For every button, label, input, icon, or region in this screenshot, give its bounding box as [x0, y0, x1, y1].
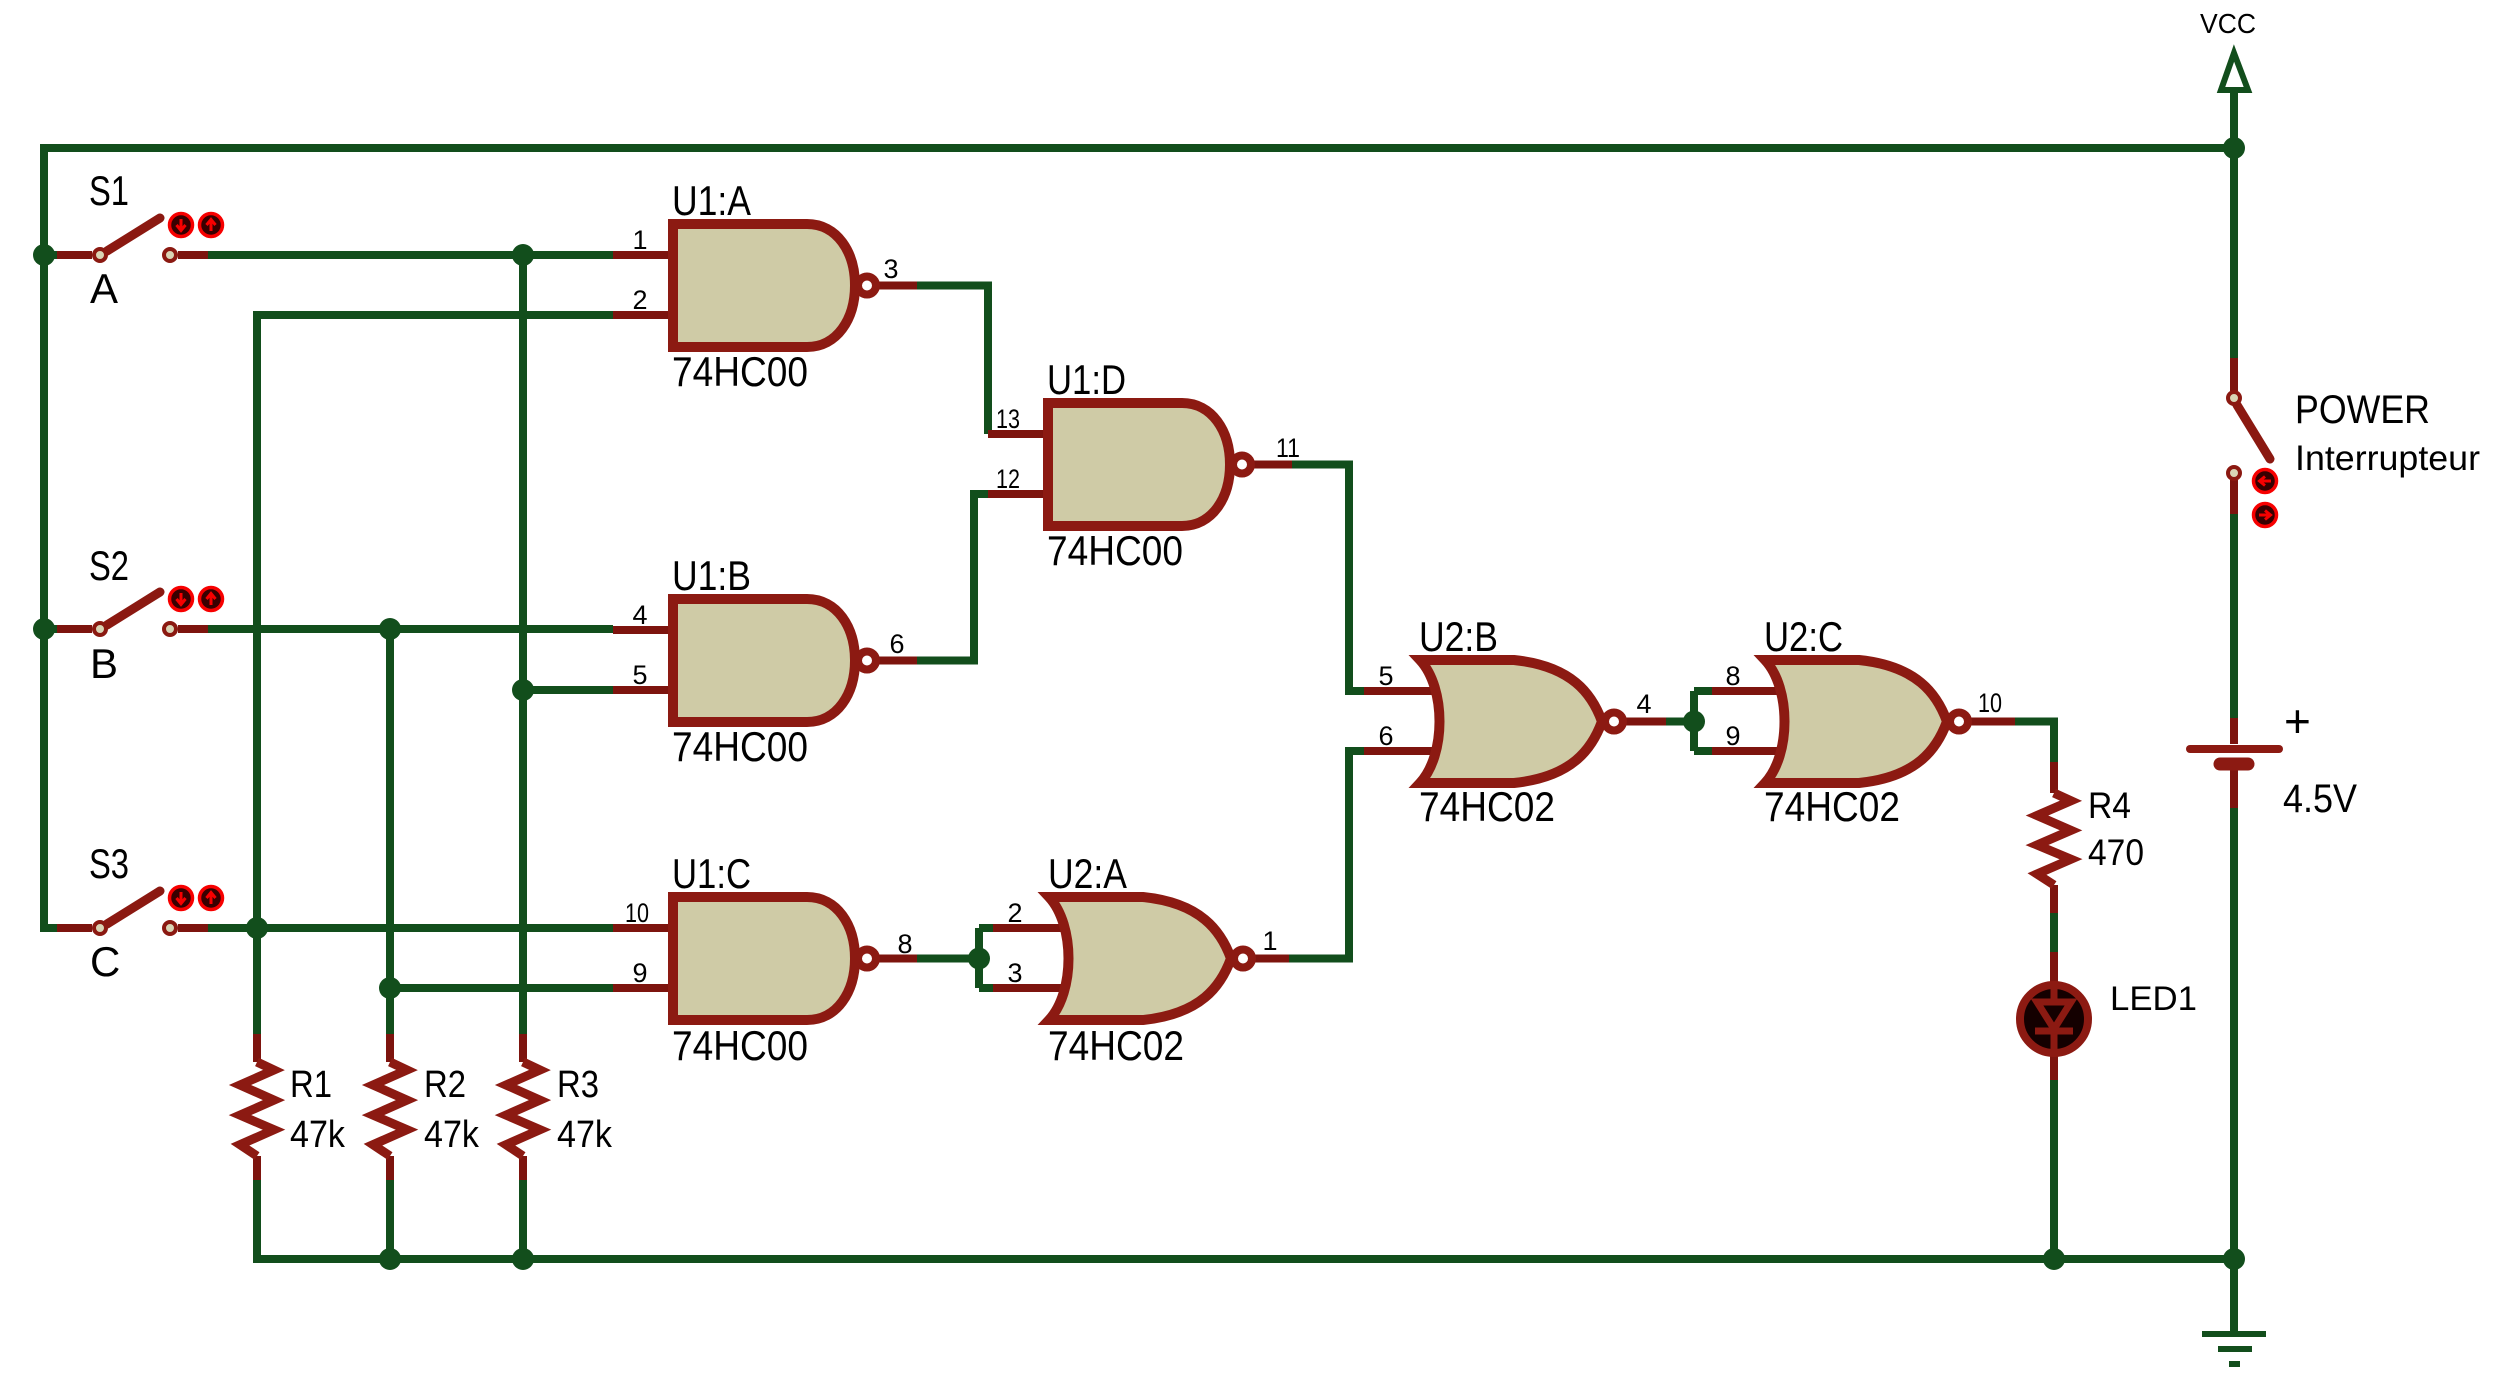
svg-text:4: 4	[1636, 689, 1651, 719]
svg-text:4: 4	[632, 600, 647, 630]
svg-text:8: 8	[1725, 661, 1740, 691]
svg-text:2: 2	[632, 285, 647, 315]
svg-text:R2: R2	[424, 1064, 466, 1106]
svg-text:Interrupteur: Interrupteur	[2295, 439, 2480, 478]
svg-text:2: 2	[1007, 898, 1022, 928]
svg-text:+: +	[2284, 695, 2311, 747]
svg-text:1: 1	[1262, 926, 1277, 956]
svg-text:470: 470	[2088, 832, 2144, 873]
svg-text:74HC00: 74HC00	[672, 723, 808, 770]
svg-text:U2:A: U2:A	[1048, 850, 1127, 897]
svg-text:1: 1	[632, 225, 647, 255]
svg-text:74HC00: 74HC00	[672, 1022, 808, 1069]
svg-text:74HC02: 74HC02	[1764, 783, 1900, 830]
svg-text:S3: S3	[89, 840, 129, 887]
svg-text:4.5V: 4.5V	[2283, 777, 2357, 821]
svg-text:11: 11	[1276, 433, 1300, 463]
svg-text:47k: 47k	[424, 1114, 480, 1156]
svg-text:U1:C: U1:C	[672, 850, 751, 897]
svg-text:47k: 47k	[557, 1114, 613, 1156]
svg-text:10: 10	[625, 898, 649, 928]
svg-text:6: 6	[1378, 721, 1393, 751]
svg-text:U2:C: U2:C	[1764, 613, 1843, 660]
svg-text:9: 9	[1725, 721, 1740, 751]
svg-text:VCC: VCC	[2200, 8, 2256, 39]
svg-text:A: A	[90, 265, 118, 312]
svg-text:8: 8	[897, 929, 912, 959]
svg-text:74HC02: 74HC02	[1419, 783, 1555, 830]
svg-text:S1: S1	[89, 167, 129, 214]
svg-text:3: 3	[883, 254, 898, 284]
svg-text:U2:B: U2:B	[1419, 613, 1498, 660]
svg-text:S2: S2	[89, 542, 129, 589]
svg-text:47k: 47k	[290, 1114, 346, 1156]
svg-text:POWER: POWER	[2295, 388, 2430, 432]
svg-text:6: 6	[889, 629, 904, 659]
svg-text:R4: R4	[2088, 785, 2131, 826]
svg-text:R3: R3	[557, 1064, 599, 1106]
svg-text:R1: R1	[290, 1064, 332, 1106]
svg-text:3: 3	[1007, 958, 1022, 988]
svg-text:5: 5	[632, 660, 647, 690]
svg-text:C: C	[90, 938, 120, 985]
svg-text:9: 9	[632, 958, 647, 988]
svg-text:B: B	[90, 640, 118, 687]
svg-text:10: 10	[1978, 688, 2002, 718]
svg-text:74HC00: 74HC00	[672, 348, 808, 395]
svg-text:74HC00: 74HC00	[1047, 527, 1183, 574]
svg-text:13: 13	[996, 404, 1020, 434]
svg-text:LED1: LED1	[2110, 980, 2197, 1018]
svg-text:U1:A: U1:A	[672, 177, 751, 224]
svg-text:5: 5	[1378, 661, 1393, 691]
svg-text:U1:D: U1:D	[1047, 356, 1126, 403]
svg-text:74HC02: 74HC02	[1048, 1022, 1184, 1069]
svg-text:U1:B: U1:B	[672, 552, 751, 599]
svg-text:12: 12	[996, 464, 1020, 494]
